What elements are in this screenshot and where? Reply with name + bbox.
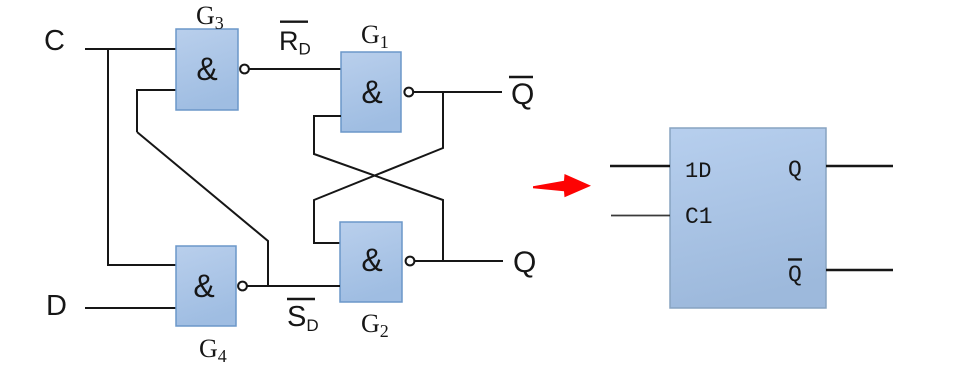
svg-text:G3: G3 [196, 1, 224, 33]
wire cross-couple G2 output to G1 lower input [314, 116, 443, 261]
svg-text:Q: Q [511, 78, 534, 111]
svg-text:RD: RD [279, 26, 311, 59]
wire Qbar output [826, 269, 893, 272]
wire C input [85, 48, 176, 50]
overbar of RD [280, 21, 308, 23]
svg-text:D: D [46, 290, 67, 322]
wire SD from G4 to G2 [247, 285, 340, 287]
wire cross-couple G1 output to G2 upper input [314, 92, 443, 243]
svg-text:C: C [44, 25, 65, 57]
bubble G2 output [406, 257, 415, 266]
svg-text:G4: G4 [199, 334, 227, 366]
svg-text:Q: Q [788, 157, 802, 183]
svg-text:C1: C1 [685, 204, 713, 230]
bubble G4 output [238, 282, 247, 291]
gate G2 [340, 222, 402, 302]
wire C branch down to G4 upper input [108, 49, 176, 265]
svg-text:&: & [193, 268, 214, 304]
wire C1 input [611, 215, 670, 217]
svg-text:SD: SD [287, 301, 319, 335]
overbar of flip-flop Qbar [788, 258, 802, 260]
wire RD from G3 to G1 [249, 68, 341, 70]
svg-text:&: & [361, 74, 382, 110]
svg-text:G2: G2 [361, 309, 389, 341]
svg-text:1D: 1D [685, 159, 711, 184]
gate G3 [176, 29, 238, 110]
overbar of Qbar latch [509, 76, 533, 79]
svg-text:&: & [196, 51, 217, 87]
svg-text:Q: Q [788, 262, 802, 288]
svg-text:&: & [361, 242, 382, 278]
gate G1 [341, 52, 401, 132]
overbar of SD [287, 298, 315, 300]
bubble G3 output [240, 65, 249, 74]
wire D input [85, 307, 176, 309]
gate G4 [176, 246, 236, 326]
wire G3 lower input stub [137, 90, 176, 132]
wire diagonal G3 input to SD node [137, 132, 268, 286]
wire G2 output to Q [415, 260, 503, 262]
svg-text:G1: G1 [361, 20, 389, 52]
wire Q output [826, 165, 893, 168]
svg-text:Q: Q [513, 246, 536, 279]
bubble G1 output [404, 88, 413, 97]
flip-flop block U1 [670, 128, 826, 308]
wire 1D input [610, 165, 670, 168]
wire G1 output to Qbar [413, 91, 502, 93]
arrow red [533, 174, 591, 197]
